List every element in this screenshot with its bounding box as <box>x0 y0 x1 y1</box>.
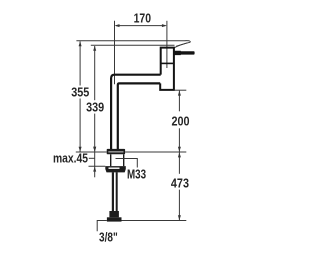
3/8 leader line <box>97 221 107 232</box>
max.45 arrow up to nut <box>93 167 96 172</box>
svg-text:3/8": 3/8" <box>99 231 118 244</box>
extension line at spout outlet x114.5 <box>114 21 116 85</box>
body outline <box>160 48 174 90</box>
base flange on deck <box>107 149 125 154</box>
3/8 connection nut <box>107 217 122 221</box>
max.45 dimension line <box>94 152 96 167</box>
raised lever outline <box>174 41 190 48</box>
svg-text:170: 170 <box>134 11 151 25</box>
threaded shank left edge <box>110 154 112 166</box>
svg-text:339: 339 <box>86 99 104 114</box>
dimension 200 line lower <box>178 128 180 151</box>
supply pipe right wall <box>116 172 118 211</box>
339 arrow up <box>93 46 96 51</box>
dimension 473 line upper <box>178 152 180 174</box>
dimension 339 line upper <box>94 46 96 100</box>
body bottom extension line <box>175 89 186 91</box>
dimension 200 line upper <box>178 91 180 112</box>
svg-text:355: 355 <box>71 85 89 100</box>
355 arrow up <box>79 41 82 46</box>
dimension 355 line upper <box>79 41 81 85</box>
centerline of body x166.9 <box>166 21 168 68</box>
body joint line <box>161 62 174 64</box>
arm bottom and riser right edge <box>118 83 160 149</box>
max.45 arrow down to deck <box>93 147 96 152</box>
supply pipe left wall <box>112 172 114 211</box>
473 arrow down <box>178 215 181 220</box>
svg-text:M33: M33 <box>127 168 146 181</box>
compression fitting <box>109 211 119 217</box>
dimension 170 line <box>116 25 165 27</box>
spout bottom line <box>91 44 175 46</box>
arrow right of 170 <box>162 24 167 27</box>
max.45 leader <box>89 157 95 159</box>
svg-text:200: 200 <box>172 114 190 129</box>
dimension 339 line lower <box>94 114 96 152</box>
svg-text:max.45: max.45 <box>53 152 88 166</box>
bottom extension line right <box>122 220 187 222</box>
arrow left of 170 <box>115 24 120 27</box>
lever handle (closed, filled) <box>174 51 194 55</box>
raised lever inner edge <box>176 43 187 46</box>
200 arrow up <box>178 91 181 96</box>
473 arrow up <box>178 152 181 157</box>
svg-text:473: 473 <box>171 176 189 191</box>
arm top and riser left edge <box>111 75 161 150</box>
mounting nut <box>105 166 126 172</box>
200 arrow down <box>178 147 181 152</box>
nut top extension line <box>89 165 106 167</box>
dimension 473 line lower <box>178 190 180 221</box>
339 arrow down <box>93 147 96 152</box>
spout top line <box>76 40 189 43</box>
355 arrow down <box>79 147 82 152</box>
M33 leader line <box>116 159 138 168</box>
deck extension line left <box>76 151 107 153</box>
dimension 355 line lower <box>79 99 81 152</box>
deck extension line right <box>125 151 186 153</box>
threaded shank right edge <box>123 154 125 166</box>
